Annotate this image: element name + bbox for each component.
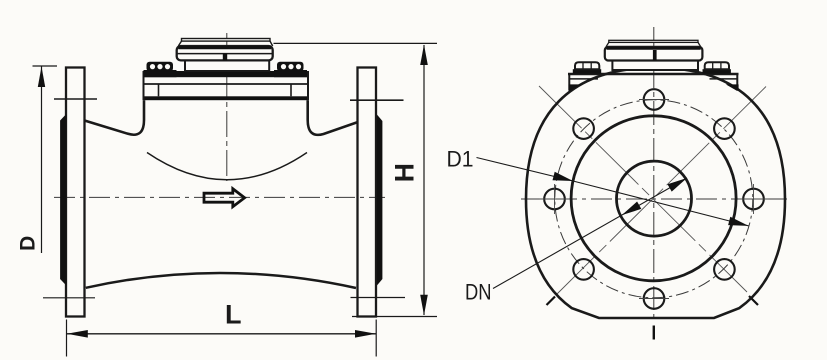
- right bolt nut (end view): [705, 62, 729, 69]
- diagonal centerline TL-BR bold end dash: [749, 296, 758, 305]
- left flange raised face: [60, 114, 66, 286]
- right bolt head: [277, 62, 304, 72]
- bolt hole left: [544, 189, 565, 210]
- body right shoulder outline: [308, 100, 358, 135]
- dimension H bottom extension: [352, 316, 437, 318]
- plate side wedge left (black): [569, 84, 582, 90]
- lid top plate left bevel: [178, 41, 181, 46]
- lid inner line: [177, 53, 272, 55]
- svg-text:DN: DN: [465, 280, 492, 305]
- lid top thick edge (end view): [607, 47, 701, 50]
- plate side line upper-left: [569, 78, 598, 80]
- lid top plate (end view): [609, 40, 698, 42]
- register plate top line: [568, 73, 739, 75]
- left bolt dots: [150, 64, 155, 69]
- body barrel bottom arc: [86, 273, 356, 288]
- dimension DN arrow upper-right: [668, 178, 688, 192]
- dimension L line: [67, 333, 377, 335]
- diagonal centerline TR-BL bold end dash: [547, 297, 556, 306]
- dimension H bottom arrow: [420, 295, 428, 316]
- lid center hinge: [223, 54, 227, 61]
- register lid (end view): [605, 47, 703, 61]
- right bolt washer (end view, black): [703, 69, 731, 74]
- left flange hub line bottom: [43, 297, 95, 299]
- bore circle: [617, 161, 692, 236]
- dimension L right arrow: [355, 330, 376, 338]
- dimension D arrow: [38, 67, 45, 88]
- plate inner tick right: [290, 84, 292, 96]
- register mounting plate (top black band): [144, 71, 309, 77]
- diagonal centerline TL-BR: [539, 86, 747, 292]
- bolt circle (dash-dot): [555, 100, 753, 298]
- svg-text:H: H: [389, 163, 419, 182]
- left bolt washer (end view, black): [573, 69, 601, 74]
- horizontal centerline (flow axis): [54, 196, 385, 198]
- plate middle line: [144, 83, 309, 85]
- right flange hub line bottom: [351, 297, 406, 299]
- vertical centerline: [653, 27, 655, 322]
- bolt hole bottom: [644, 288, 665, 309]
- body left shoulder outline: [85, 100, 145, 134]
- bolt hole cross ticks: [540, 100, 769, 299]
- flange body outline (circle with flat base): [526, 68, 785, 318]
- right bolt washer: [274, 70, 307, 77]
- bolt hole top-right: [714, 118, 735, 139]
- dimension H line: [423, 45, 425, 315]
- dimension D line: [41, 66, 43, 253]
- register box: [185, 60, 269, 71]
- horizontal centerline: [521, 198, 791, 200]
- dimension H top arrow: [420, 45, 428, 66]
- register plate right edge: [736, 73, 738, 91]
- svg-text:L: L: [225, 300, 242, 330]
- lid top plate left bevel (end view): [606, 42, 609, 46]
- bolt hole top-left: [573, 118, 594, 139]
- left flange: [66, 68, 85, 317]
- dimension D1 leader: [477, 158, 749, 226]
- lid top thick edge: [178, 46, 271, 49]
- dimension DN arrow lower-left: [622, 202, 642, 216]
- lid center hinge (end view): [653, 50, 657, 61]
- vertical centerline bottom bold dash: [653, 326, 655, 340]
- plate side wedge right (black): [726, 84, 739, 90]
- right flange hub line top: [350, 99, 404, 101]
- dimension L left arrow: [67, 330, 88, 338]
- diagonal centerline TR-BL: [557, 87, 766, 295]
- register lid: [177, 46, 273, 60]
- right flange: [358, 68, 377, 317]
- left bolt head: [147, 62, 174, 72]
- right flange raised face: [377, 115, 383, 286]
- lid top plate: [182, 39, 271, 42]
- dimension L right extension: [375, 320, 377, 357]
- svg-text:D: D: [16, 236, 39, 251]
- left bolt washer: [144, 70, 177, 77]
- left bolt nut (end view): [575, 62, 599, 69]
- register box (end view): [612, 61, 698, 71]
- left bolt nut facets: [582, 62, 584, 69]
- lid top plate right bevel (end view): [698, 42, 701, 46]
- dimension L left extension: [66, 320, 68, 357]
- body crown arc: [147, 153, 307, 180]
- dimension D extension tick: [33, 65, 58, 67]
- left flange hub line top: [54, 98, 97, 100]
- lid top plate right bevel: [270, 41, 273, 46]
- plate bottom band: [144, 96, 309, 100]
- plate inner tick left: [158, 84, 160, 96]
- register plate left edge: [568, 73, 570, 91]
- flow direction arrow: [204, 189, 245, 207]
- dimension H top extension (projection line from cap): [274, 42, 438, 44]
- bolt hole bottom-left: [573, 259, 594, 280]
- plate side line upper-right: [710, 78, 738, 80]
- dimension D1 arrow on raised face circle: [553, 172, 574, 181]
- bolt hole bottom-right: [714, 259, 735, 280]
- dimension D1 arrow on bolt circle: [728, 217, 749, 226]
- plate left edge: [143, 71, 145, 100]
- plate right edge: [307, 71, 309, 100]
- right bolt dots: [281, 64, 286, 69]
- right bolt nut facets: [712, 62, 714, 69]
- bolt hole right: [743, 189, 764, 210]
- dimension DN line: [493, 178, 687, 289]
- bolt hole top: [644, 89, 665, 110]
- raised face circle: [571, 116, 736, 281]
- vertical centerline (register axis): [226, 33, 228, 181]
- svg-text:D1: D1: [447, 147, 474, 172]
